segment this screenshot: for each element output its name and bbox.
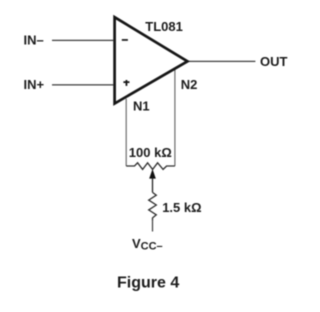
svg-text:TL081: TL081 (145, 19, 183, 34)
op-amp non-inverting input plus symbol (123, 80, 129, 86)
svg-text:1.5 kΩ: 1.5 kΩ (162, 200, 201, 215)
wire node N2 vertical (174, 68, 176, 166)
svg-text:100 kΩ: 100 kΩ (129, 145, 172, 160)
wire OUT output (188, 60, 255, 62)
svg-text:Figure 4: Figure 4 (117, 275, 179, 292)
potentiometer wiper arrow shaft (152, 178, 154, 192)
svg-text:IN–: IN– (24, 32, 44, 47)
svg-text:OUT: OUT (260, 54, 288, 69)
resistor R1 100k potentiometer body (126, 163, 175, 170)
op-amp inverting input minus symbol (122, 39, 128, 41)
wire IN- input (52, 39, 113, 41)
wire node N1 vertical (125, 99, 127, 166)
op-amp U1 triangle (115, 17, 188, 103)
wire to VCC- (152, 221, 154, 232)
wire IN+ input (52, 84, 113, 86)
resistor R2 1.5k body (149, 192, 157, 221)
svg-text:N1: N1 (133, 98, 150, 113)
svg-text:IN+: IN+ (24, 77, 45, 92)
svg-text:N2: N2 (181, 77, 198, 92)
potentiometer wiper arrow head (150, 170, 156, 178)
